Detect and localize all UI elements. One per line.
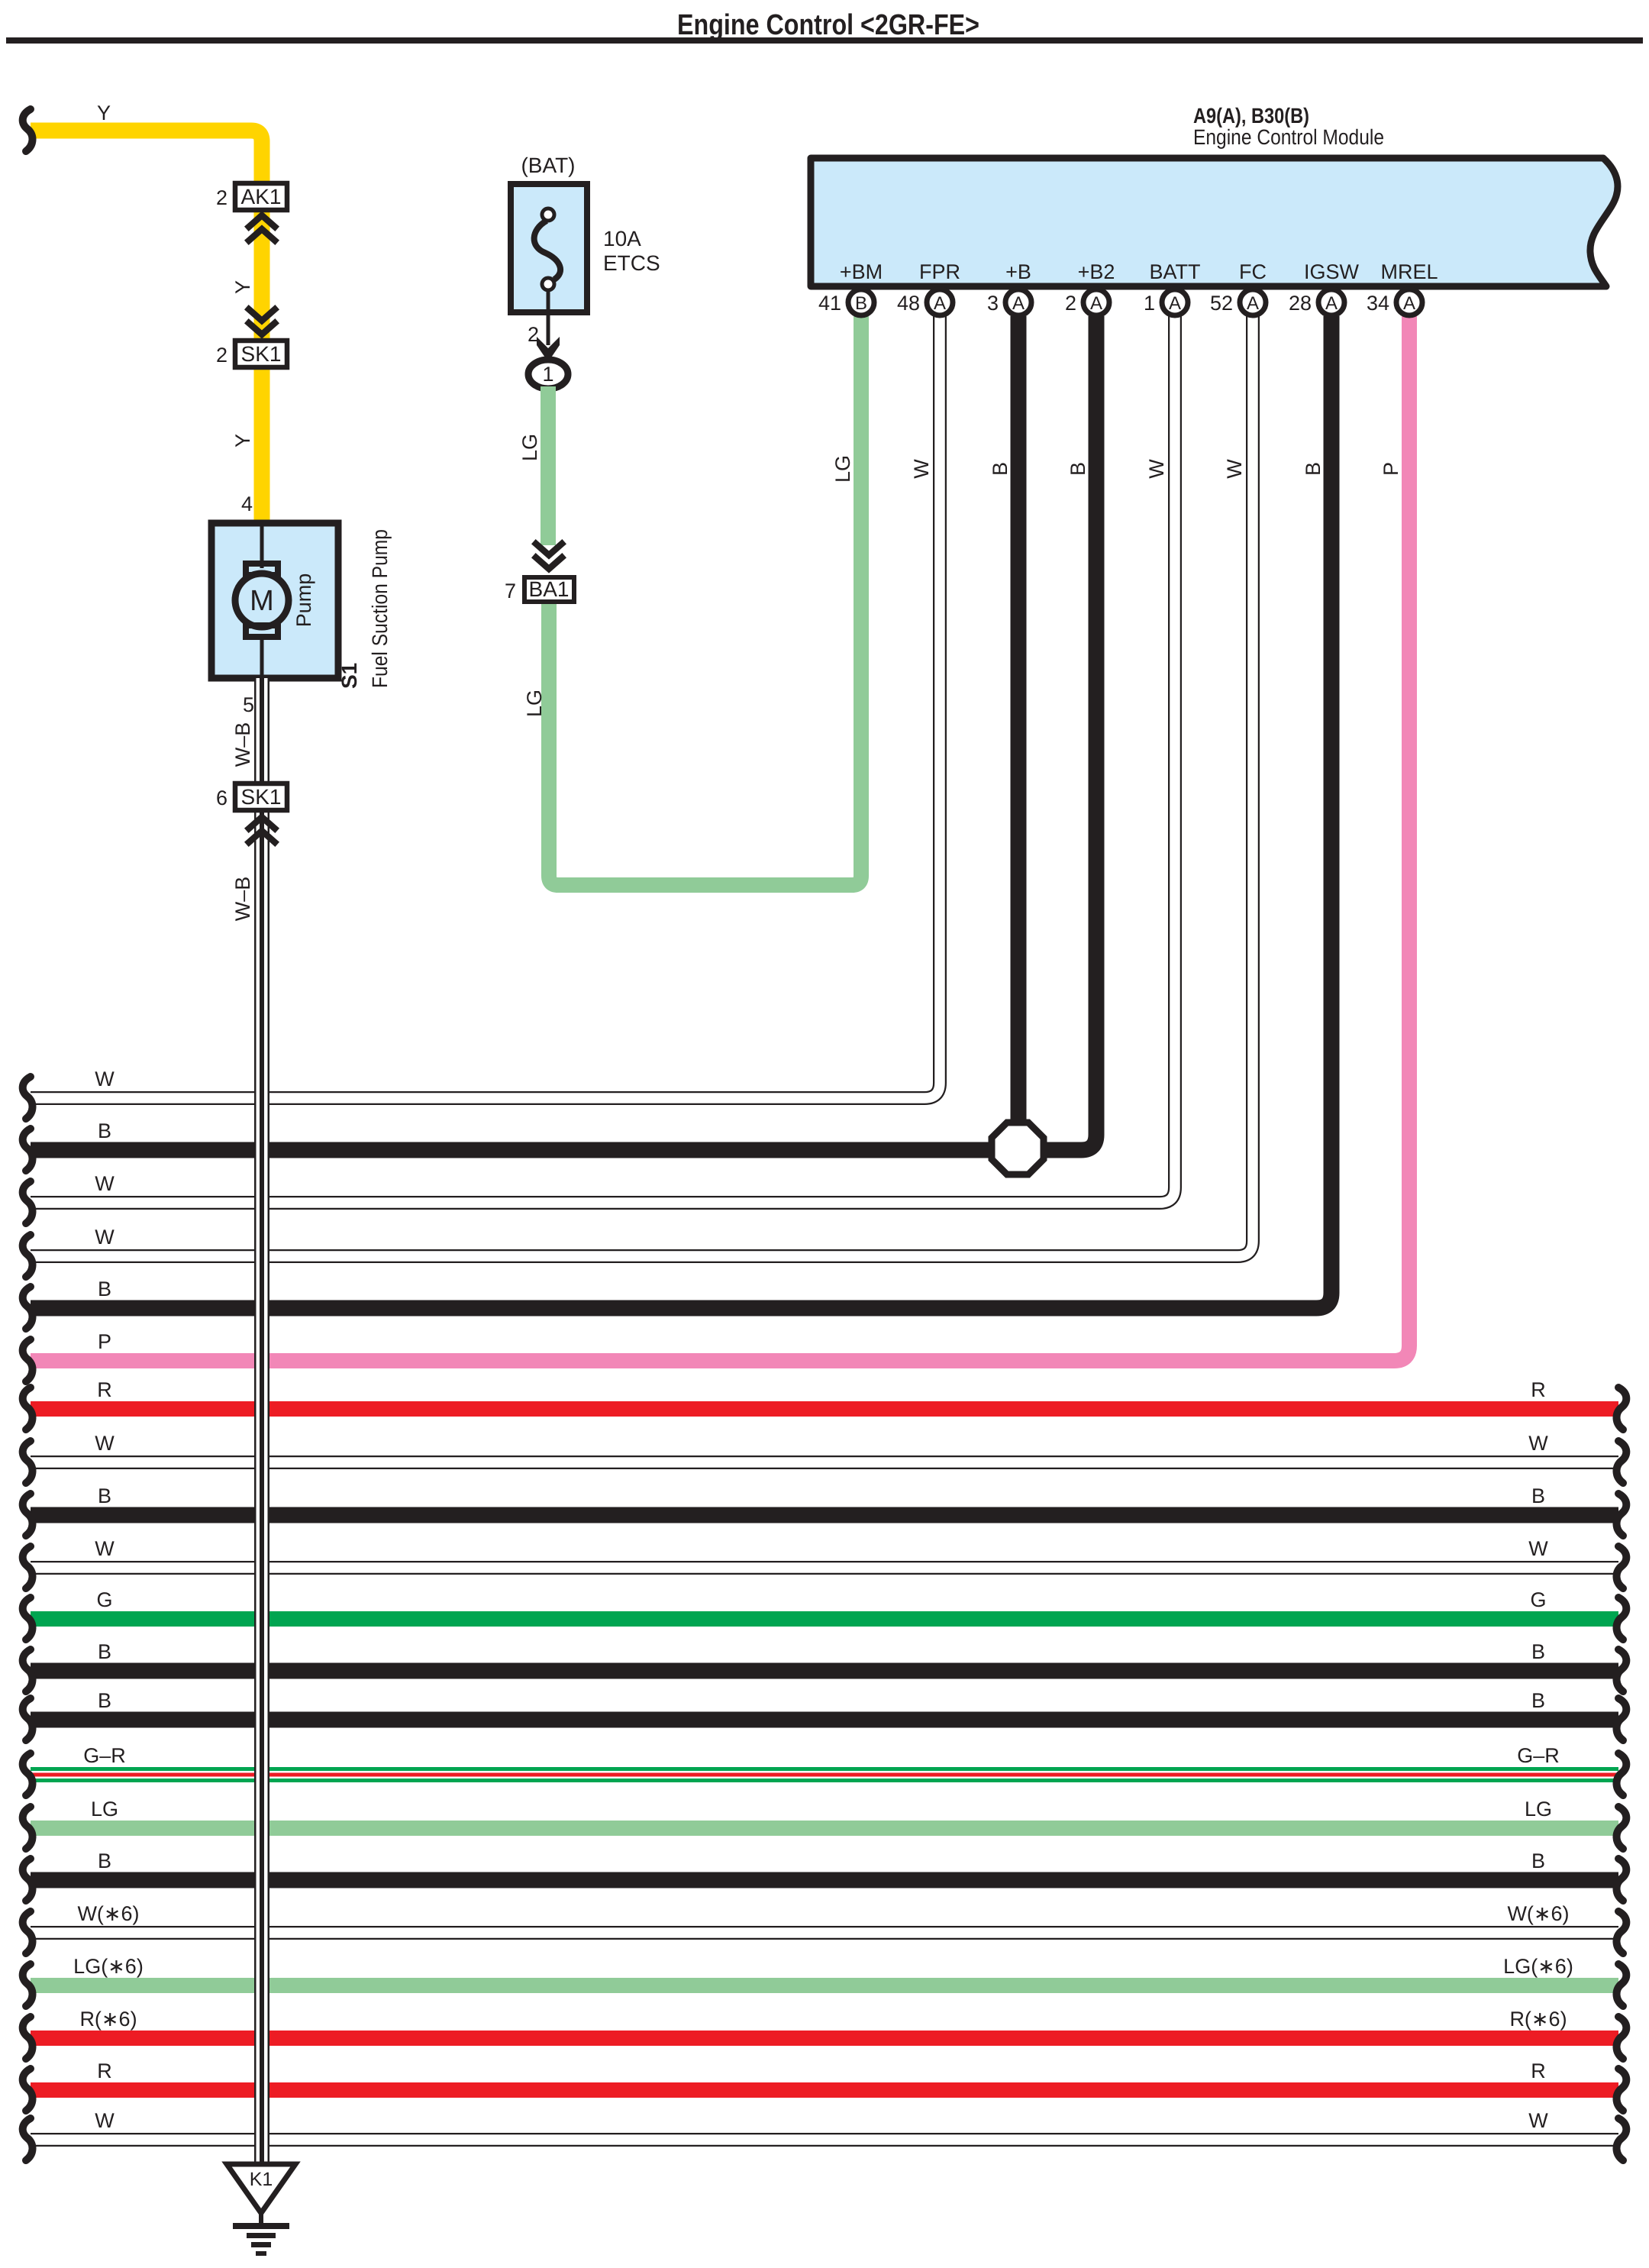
wire 8 right break curl xyxy=(1616,1441,1626,1483)
wire 12 right break curl xyxy=(1616,1649,1626,1691)
pump internal wire top xyxy=(260,526,264,568)
svg-text:LG(∗6): LG(∗6) xyxy=(73,1955,144,1978)
wire 21: W horizontal at y=2802 xyxy=(31,2133,1618,2147)
wire 16: B horizontal at y=2462 xyxy=(31,1872,1618,1888)
wire 21 left break curl xyxy=(23,2118,33,2160)
wire 19: R(∗6) horizontal at y=2669 xyxy=(31,2031,1618,2046)
wire 9 right break curl xyxy=(1616,1494,1626,1536)
wire 14: G–R horizontal at y=2324 xyxy=(31,1767,1618,1782)
svg-text:W: W xyxy=(1145,459,1168,479)
svg-text:G: G xyxy=(1530,1588,1546,1611)
svg-text:W: W xyxy=(1223,459,1246,479)
wire 18 right break curl xyxy=(1616,1964,1626,2006)
wire 12: B horizontal at y=2188 xyxy=(31,1663,1618,1679)
ground stem xyxy=(259,2213,263,2224)
svg-text:48: 48 xyxy=(897,292,920,315)
svg-text:ETCS: ETCS xyxy=(603,251,660,275)
svg-text:W: W xyxy=(1528,2109,1548,2132)
svg-text:LG: LG xyxy=(91,1798,118,1821)
svg-text:MREL: MREL xyxy=(1380,260,1438,283)
ground bar 4 xyxy=(256,2251,266,2256)
svg-text:B: B xyxy=(98,1278,111,1300)
svg-text:LG(∗6): LG(∗6) xyxy=(1503,1955,1573,1978)
svg-text:7: 7 xyxy=(505,580,516,603)
wire 8 left break curl xyxy=(23,1441,33,1483)
svg-text:B: B xyxy=(1531,1850,1545,1872)
svg-text:2: 2 xyxy=(216,344,228,367)
svg-text:R(∗6): R(∗6) xyxy=(79,2008,137,2031)
fuse element curve xyxy=(534,221,560,279)
wire 18: LG(∗6) horizontal at y=2600 xyxy=(31,1978,1618,1993)
svg-text:B: B xyxy=(98,1850,111,1872)
wire 16 left break curl xyxy=(23,1859,33,1901)
svg-text:B: B xyxy=(98,1119,111,1142)
motor M circle xyxy=(235,573,289,627)
svg-text:S1: S1 xyxy=(337,663,361,689)
chevron up below AK1 xyxy=(249,215,275,241)
wire Y between SK1 and pump pin 4 xyxy=(254,365,270,524)
svg-text:B: B xyxy=(98,1689,111,1712)
svg-text:W: W xyxy=(95,1537,115,1560)
wire 14 right break curl xyxy=(1616,1753,1626,1795)
svg-text:52: 52 xyxy=(1210,292,1233,315)
wire LG from ECM pin 41 +BM down, left to below BA1 xyxy=(549,316,861,885)
svg-text:Fuel Suction Pump: Fuel Suction Pump xyxy=(368,529,392,688)
ECM pin 2 connector circle A xyxy=(1083,289,1109,315)
svg-text:2: 2 xyxy=(1065,292,1076,315)
svg-text:W: W xyxy=(1528,1537,1548,1560)
svg-text:BA1: BA1 xyxy=(529,577,570,601)
svg-text:W–B: W–B xyxy=(231,877,254,922)
svg-text:B: B xyxy=(989,462,1012,476)
connector SK1 box (lower) xyxy=(235,783,287,810)
wire 7: R horizontal at y=1845 xyxy=(31,1401,1618,1417)
wire 15: LG horizontal at y=2394 xyxy=(31,1821,1618,1836)
svg-text:2: 2 xyxy=(216,186,228,209)
svg-text:W: W xyxy=(95,1172,115,1195)
wire 9 left break curl xyxy=(23,1494,33,1536)
wire 6 left break curl xyxy=(23,1339,33,1381)
ECM pin 1 connector circle A xyxy=(1162,289,1188,315)
svg-text:1: 1 xyxy=(542,363,553,386)
wire 2 left break curl xyxy=(23,1129,33,1171)
wire 15 right break curl xyxy=(1616,1807,1626,1849)
svg-text:P: P xyxy=(1380,462,1402,476)
wire 13 left break curl xyxy=(23,1698,33,1740)
ECM box: Engine Control Module A9(A), B30(B) xyxy=(811,158,1618,286)
chevron up below SK1 lower xyxy=(249,817,275,842)
svg-text:Y: Y xyxy=(231,434,254,447)
svg-text:SK1: SK1 xyxy=(241,342,282,366)
svg-text:B: B xyxy=(1531,1689,1545,1712)
component S1 Fuel Suction Pump box xyxy=(211,523,338,678)
svg-text:W: W xyxy=(95,1068,115,1090)
connector AK1 box xyxy=(235,183,287,210)
wire 20: R horizontal at y=2737 xyxy=(31,2082,1618,2098)
fuse ETCS 10A box xyxy=(511,184,587,312)
svg-text:W–B: W–B xyxy=(231,722,254,767)
wire 7 right break curl xyxy=(1616,1388,1626,1430)
svg-text:K1: K1 xyxy=(250,2169,273,2190)
ECM pin 34 connector circle A xyxy=(1396,289,1422,315)
svg-text:W(∗6): W(∗6) xyxy=(77,1902,139,1925)
svg-text:B: B xyxy=(1531,1485,1545,1507)
ground bar 1 xyxy=(233,2223,289,2229)
wire 5 left break curl xyxy=(23,1287,33,1329)
svg-text:LG: LG xyxy=(518,434,541,461)
ECM pin 3 connector circle A xyxy=(1005,289,1031,315)
svg-text:LG: LG xyxy=(523,690,546,717)
svg-text:LG: LG xyxy=(1525,1798,1552,1821)
svg-text:5: 5 xyxy=(243,693,254,716)
svg-text:B: B xyxy=(1531,1640,1545,1663)
svg-text:P: P xyxy=(98,1330,111,1353)
svg-text:28: 28 xyxy=(1289,292,1312,315)
wire Y yellow from left break to AK1 xyxy=(31,131,262,183)
wire 4 left break curl xyxy=(23,1235,33,1277)
svg-text:Engine Control Module: Engine Control Module xyxy=(1193,125,1384,149)
svg-text:LG: LG xyxy=(831,455,854,483)
pump internal wire bottom xyxy=(260,634,264,675)
wire 20 right break curl xyxy=(1616,2069,1626,2111)
svg-text:AK1: AK1 xyxy=(241,185,282,208)
svg-text:B: B xyxy=(1302,462,1325,476)
svg-text:R: R xyxy=(1531,1378,1546,1401)
svg-text:+B2: +B2 xyxy=(1078,260,1115,283)
ECM pin 41 connector circle B xyxy=(848,289,874,315)
junction octagon on B wire xyxy=(992,1123,1044,1174)
fuse terminal circle bottom xyxy=(542,278,554,290)
svg-text:(BAT): (BAT) xyxy=(521,153,575,177)
wire 5: B horizontal at y=1713 xyxy=(31,316,1331,1308)
svg-text:W: W xyxy=(95,1432,115,1455)
svg-text:R: R xyxy=(1531,2060,1546,2082)
svg-text:B: B xyxy=(98,1485,111,1507)
wire Y between AK1 and SK1 xyxy=(254,209,270,341)
svg-text:W: W xyxy=(95,1226,115,1249)
svg-text:A: A xyxy=(1012,293,1025,314)
svg-text:FPR: FPR xyxy=(919,260,960,283)
wire 17 right break curl xyxy=(1616,1911,1626,1953)
svg-text:R: R xyxy=(97,2060,112,2082)
ground bar 3 xyxy=(251,2242,271,2247)
wire 7 left break curl xyxy=(23,1388,33,1430)
wire 10 right break curl xyxy=(1616,1546,1626,1588)
wire 19 left break curl xyxy=(23,2017,33,2059)
wire B from ECM pin 3 +B down to octagon junction xyxy=(1011,316,1027,1123)
chevron down above BA1 xyxy=(536,544,562,569)
yellow wire left break curl xyxy=(23,109,33,151)
fuse terminal circle top xyxy=(542,208,554,221)
ECM pin 52 connector circle A xyxy=(1240,289,1266,315)
svg-text:B: B xyxy=(855,293,867,314)
svg-text:3: 3 xyxy=(987,292,999,315)
svg-text:W: W xyxy=(910,459,933,479)
wire LG from node 1 down to BA1 xyxy=(541,386,556,545)
svg-text:G–R: G–R xyxy=(83,1744,126,1767)
wire 17: W(∗6) horizontal at y=2531 xyxy=(31,1926,1618,1940)
svg-text:6: 6 xyxy=(216,787,228,809)
svg-text:A: A xyxy=(1090,293,1102,314)
wire 1: W horizontal at y=1438 xyxy=(31,316,940,1098)
ground triangle K1 xyxy=(227,2164,295,2213)
svg-text:W(∗6): W(∗6) xyxy=(1507,1902,1569,1925)
wire 8: W horizontal at y=1915 xyxy=(31,1455,1618,1469)
wire 1 left break curl xyxy=(23,1077,33,1119)
wire 10: W horizontal at y=2053 xyxy=(31,1561,1618,1575)
svg-text:FC: FC xyxy=(1239,260,1267,283)
chevron down above SK1 xyxy=(249,309,275,334)
svg-text:+BM: +BM xyxy=(840,260,883,283)
wire 15 left break curl xyxy=(23,1807,33,1849)
wire 2: B horizontal at y=1506 xyxy=(31,316,1096,1150)
svg-text:4: 4 xyxy=(241,493,253,515)
svg-text:R: R xyxy=(97,1378,112,1401)
wire 16 right break curl xyxy=(1616,1859,1626,1901)
node 1 oval xyxy=(528,360,568,389)
wire 6: P horizontal at y=1782 xyxy=(31,316,1409,1361)
svg-text:10A: 10A xyxy=(603,227,641,250)
wire 13 right break curl xyxy=(1616,1698,1626,1740)
svg-text:B: B xyxy=(98,1640,111,1663)
wire 17 left break curl xyxy=(23,1911,33,1953)
connector SK1 box xyxy=(235,341,287,367)
svg-text:+B: +B xyxy=(1005,260,1031,283)
wire W-B from pump pin 5 down through SK1 to ground K1 xyxy=(254,678,269,2166)
svg-text:Y: Y xyxy=(97,102,111,124)
motor brush top xyxy=(246,564,278,575)
svg-text:R(∗6): R(∗6) xyxy=(1509,2008,1567,2031)
wire from fuse to node 1 xyxy=(547,290,550,345)
wire 18 left break curl xyxy=(23,1964,33,2006)
svg-text:W: W xyxy=(1528,1432,1548,1455)
wire 11 left break curl xyxy=(23,1598,33,1640)
ground bar 2 xyxy=(247,2233,276,2238)
svg-text:A: A xyxy=(934,293,946,314)
svg-text:A: A xyxy=(1169,293,1181,314)
wire 14 left break curl xyxy=(23,1753,33,1795)
wire 11: G horizontal at y=2120 xyxy=(31,1611,1618,1627)
svg-text:SK1: SK1 xyxy=(241,785,282,809)
wire 9: B horizontal at y=1984 xyxy=(31,1507,1618,1523)
svg-text:Pump: Pump xyxy=(292,573,315,628)
motor brush bottom xyxy=(246,625,278,637)
svg-text:41: 41 xyxy=(818,292,841,315)
svg-text:A: A xyxy=(1403,293,1415,314)
arrow into node 1 xyxy=(537,337,560,362)
svg-text:1: 1 xyxy=(1144,292,1155,315)
svg-text:IGSW: IGSW xyxy=(1304,260,1360,283)
wire 3 left break curl xyxy=(23,1181,33,1223)
svg-text:G–R: G–R xyxy=(1517,1744,1560,1767)
wire 13: B horizontal at y=2252 xyxy=(31,1712,1618,1728)
svg-text:B: B xyxy=(1067,462,1089,476)
ECM pin 48 connector circle A xyxy=(927,289,953,315)
wire 3: W horizontal at y=1575 xyxy=(31,316,1175,1203)
svg-text:BATT: BATT xyxy=(1150,260,1201,283)
wire 11 right break curl xyxy=(1616,1598,1626,1640)
connector BA1 box xyxy=(524,577,574,602)
wire 10 left break curl xyxy=(23,1546,33,1588)
wire 12 left break curl xyxy=(23,1649,33,1691)
wire 19 right break curl xyxy=(1616,2017,1626,2059)
svg-text:G: G xyxy=(96,1588,112,1611)
title rule xyxy=(6,37,1643,44)
ECM pin 28 connector circle A xyxy=(1318,289,1344,315)
wire 4: W horizontal at y=1645 xyxy=(31,316,1253,1256)
wire 20 left break curl xyxy=(23,2069,33,2111)
svg-text:34: 34 xyxy=(1367,292,1389,315)
svg-text:A: A xyxy=(1247,293,1259,314)
svg-text:Y: Y xyxy=(231,280,254,294)
svg-text:A: A xyxy=(1325,293,1338,314)
svg-text:W: W xyxy=(95,2109,115,2132)
svg-text:Engine Control <2GR-FE>: Engine Control <2GR-FE> xyxy=(677,9,979,41)
wire 21 right break curl xyxy=(1616,2118,1626,2160)
svg-text:A9(A), B30(B): A9(A), B30(B) xyxy=(1193,104,1309,128)
svg-text:M: M xyxy=(250,585,274,617)
